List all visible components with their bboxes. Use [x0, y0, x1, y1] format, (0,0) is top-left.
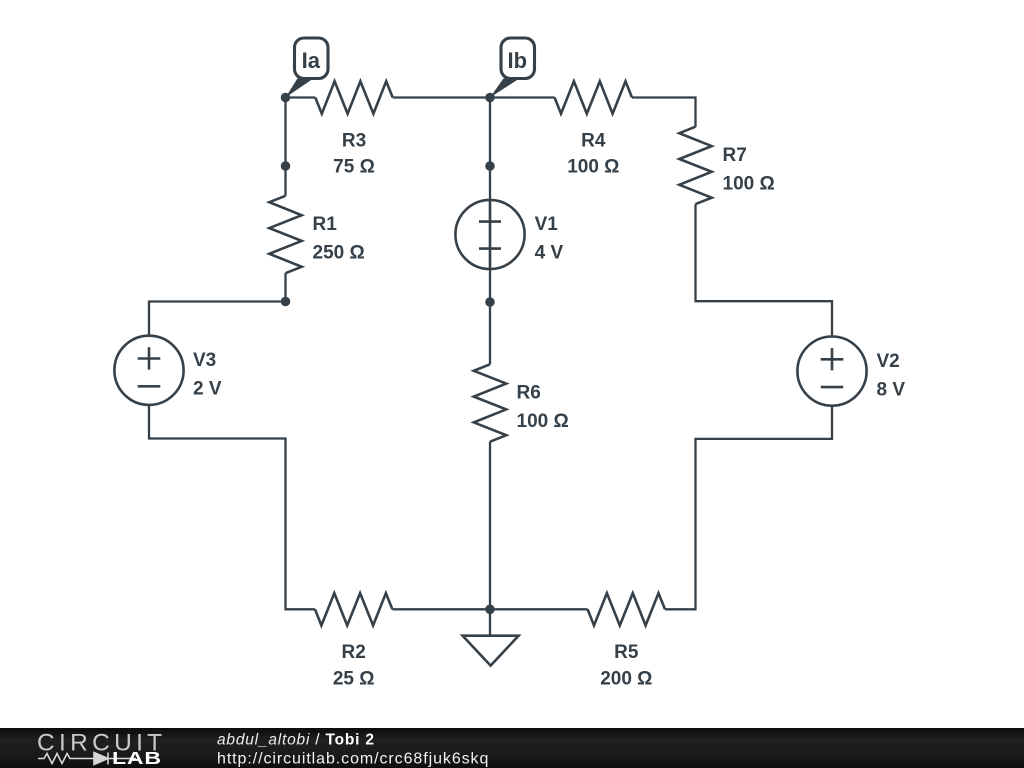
- voltage source V2 minus sign: [821, 386, 844, 389]
- resistor R3: [315, 81, 392, 113]
- svg-text:2 V: 2 V: [193, 379, 222, 400]
- resistor R6: [474, 364, 506, 441]
- voltage source V1 internal line and bars: [479, 200, 501, 269]
- svg-text:Ib: Ib: [508, 48, 528, 73]
- svg-text:http://circuitlab.com/crc68fju: http://circuitlab.com/crc68fjuk6skq: [217, 751, 489, 768]
- wire middle column Ib down: [489, 98, 491, 167]
- wire V1 top stub: [489, 166, 491, 200]
- svg-text:V3: V3: [193, 350, 216, 371]
- resistor R2: [315, 593, 392, 625]
- wire V3 top to node R1 bottom: [149, 302, 286, 336]
- wire top rail Ia to R3: [286, 96, 316, 98]
- CircuitLab logo resistor-diode symbol: [38, 754, 136, 764]
- svg-text:LAB: LAB: [112, 749, 162, 768]
- wire bottom rail R5 to ground node: [490, 608, 588, 610]
- junction ground node: [485, 605, 495, 615]
- wire R6 to bottom rail: [489, 442, 491, 610]
- wire bottom rail R2 to left corner up: [149, 405, 315, 609]
- junction node V1 bottom: [485, 297, 495, 307]
- voltage source V3 body: [114, 336, 183, 405]
- svg-text:100 Ω: 100 Ω: [723, 173, 775, 194]
- svg-text:8 V: 8 V: [877, 379, 906, 400]
- resistor R1: [269, 196, 301, 273]
- svg-text:R1: R1: [313, 214, 338, 235]
- ground symbol: [463, 609, 519, 665]
- svg-text:V1: V1: [535, 214, 559, 235]
- voltage source V1 body: [455, 200, 524, 269]
- svg-text:4 V: 4 V: [535, 243, 564, 264]
- voltage source V2 plus sign: [821, 348, 844, 370]
- voltage source V2 body: [797, 337, 866, 406]
- svg-text:200 Ω: 200 Ω: [600, 668, 652, 689]
- wire V1 bottom stub: [489, 269, 491, 302]
- wire top rail R4 to corner and down to R7: [632, 98, 696, 127]
- svg-text:250 Ω: 250 Ω: [313, 243, 365, 264]
- wire R1 top stub: [284, 166, 286, 196]
- svg-text:R5: R5: [614, 642, 639, 663]
- svg-text:R7: R7: [723, 145, 747, 166]
- wire top rail Ib-R4: [490, 96, 555, 98]
- svg-text:V2: V2: [877, 351, 900, 372]
- wire top rail R3-Ib: [393, 96, 490, 98]
- junction node R1 top: [281, 161, 291, 171]
- wire V1 to R6: [489, 302, 491, 364]
- svg-text:R4: R4: [581, 130, 606, 151]
- svg-text:25 Ω: 25 Ω: [333, 668, 375, 689]
- node Ia flag: [286, 38, 329, 98]
- svg-text:R3: R3: [342, 130, 366, 151]
- voltage source V3 minus sign: [138, 385, 161, 388]
- resistor R5: [588, 593, 665, 625]
- resistor R4: [555, 81, 632, 113]
- svg-text:Ia: Ia: [302, 48, 321, 73]
- resistor R7: [679, 127, 711, 204]
- wire V2 bottom to right column down: [665, 406, 832, 610]
- svg-text:75 Ω: 75 Ω: [333, 157, 375, 178]
- svg-text:100 Ω: 100 Ω: [517, 411, 569, 432]
- junction node V1 top: [485, 161, 495, 171]
- footer bar: [0, 728, 1024, 768]
- svg-text:R2: R2: [342, 642, 366, 663]
- svg-text:100 Ω: 100 Ω: [567, 157, 619, 178]
- wire R1 bottom stub: [284, 273, 286, 301]
- junction node Ia: [281, 93, 291, 103]
- node Ib flag: [490, 38, 535, 98]
- wire right column R7 to V2 top: [696, 204, 833, 337]
- svg-text:abdul_altobi / Tobi 2: abdul_altobi / Tobi 2: [217, 732, 375, 749]
- junction node R1 bottom: [281, 297, 291, 307]
- svg-text:R6: R6: [517, 383, 541, 404]
- wire bottom rail ground to R2: [392, 608, 490, 610]
- voltage source V3 plus sign: [138, 347, 161, 369]
- wire left column node to Ia: [284, 98, 286, 167]
- junction node Ib: [485, 93, 495, 103]
